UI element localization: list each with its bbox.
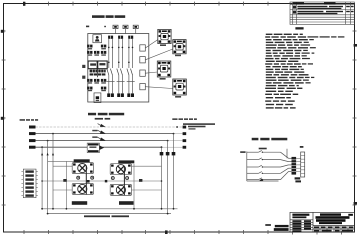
rung 1 label bbox=[259, 148, 267, 150]
wire PB1 stem bbox=[115, 29, 117, 34]
wire left drop 3 bbox=[52, 134, 54, 209]
legend note lines bbox=[265, 34, 344, 109]
fuse row 1 labels bbox=[88, 48, 106, 49]
fuse row 2 bbox=[87, 51, 106, 54]
meter circles T2 bbox=[111, 177, 114, 180]
transformer T1 label bbox=[74, 159, 90, 162]
wire TS2 to device B bbox=[145, 49, 173, 60]
fuse row 4 labels bbox=[88, 90, 106, 91]
wire stub T2 primary bbox=[132, 165, 162, 167]
wire branch to T1 bbox=[48, 160, 74, 162]
phase label right bbox=[172, 118, 177, 120]
revision row 1 text bbox=[293, 6, 354, 10]
circuit breaker CB1 box bbox=[93, 35, 102, 43]
wire TS4 to device D bbox=[145, 87, 173, 89]
wire left drop 2 bbox=[47, 141, 49, 214]
wire PB2 stem bbox=[125, 29, 127, 34]
revision row 2 text bbox=[293, 11, 354, 15]
limit switch LS2 rung bbox=[247, 158, 292, 162]
POWER PANEL LAYOUT title bbox=[92, 15, 125, 18]
panel left outside labels bbox=[82, 65, 85, 68]
riser tap right bbox=[139, 179, 142, 182]
revision table bbox=[290, 2, 354, 24]
frame center mark bottom bbox=[165, 230, 168, 234]
transformer T3 label bbox=[72, 201, 87, 205]
frame center mark top bbox=[23, 2, 25, 6]
device C (remote starter) bbox=[157, 61, 171, 80]
right drop fuse blocks bbox=[160, 152, 176, 155]
wire connector feed bbox=[286, 149, 288, 159]
wire TS3 to device C bbox=[145, 72, 157, 73]
wire right drop 3 bbox=[173, 134, 175, 209]
frame center mark left bbox=[1, 30, 4, 33]
wire left riser bbox=[65, 161, 67, 208]
title block company text bbox=[292, 214, 311, 232]
device A (remote starter) bbox=[158, 29, 171, 46]
LIMIT SWITCH SCHEMATIC title bbox=[252, 138, 288, 141]
transformer T2 label bbox=[118, 160, 134, 163]
left drop fuse marks bbox=[41, 153, 54, 156]
device D (remote starter) bbox=[173, 79, 187, 98]
node bus2 right tap bbox=[173, 133, 175, 135]
bottom tie junction dots bbox=[41, 208, 174, 215]
node bus2 left tap bbox=[52, 133, 54, 135]
frame zone ticks right bbox=[353, 31, 357, 205]
terminal square TS2 bbox=[140, 57, 146, 63]
terminal square TS1 bbox=[140, 45, 146, 51]
wire stub T1 primary bbox=[53, 165, 72, 167]
wire stub T3 primary bbox=[53, 189, 72, 191]
frame center mark right bbox=[354, 44, 357, 47]
phase label left bbox=[20, 119, 25, 121]
fuse row 3 bbox=[87, 79, 106, 82]
limit switch LS5 rung bbox=[247, 172, 292, 180]
legend title bbox=[295, 27, 303, 29]
limit switch LS4 rung bbox=[247, 168, 292, 173]
bus L2 bbox=[29, 132, 186, 135]
frame zone ticks top bbox=[24, 2, 268, 6]
revision table header text bbox=[293, 2, 304, 4]
terminal square TS3 bbox=[140, 70, 146, 76]
terminal square TS4 bbox=[140, 84, 146, 90]
transformer T2 bbox=[110, 164, 131, 175]
limit switch bottom arrow bbox=[259, 179, 263, 181]
wire T2-T4 link bbox=[123, 167, 125, 196]
drawing file stamp bbox=[265, 224, 288, 231]
wire right drop 2 bbox=[167, 141, 169, 214]
fuse row 4 bbox=[87, 87, 106, 90]
left rail label bbox=[240, 151, 245, 153]
meter circles T1 bbox=[77, 176, 80, 179]
contactor M2 bbox=[117, 36, 125, 97]
terminal strip TB1 bbox=[88, 61, 107, 77]
bus L1 bbox=[29, 126, 186, 129]
fuse row 3 labels bbox=[88, 82, 106, 83]
bus wire number labels bbox=[92, 130, 97, 138]
pushbutton PB1 bbox=[113, 25, 118, 28]
plug label bbox=[295, 177, 301, 179]
phase label center bbox=[95, 118, 103, 120]
title block bbox=[290, 212, 354, 232]
limit switch bottom rail bbox=[247, 180, 279, 182]
node A bbox=[105, 180, 108, 183]
wire mid tie bbox=[42, 180, 161, 182]
device B (remote starter) bbox=[173, 40, 186, 57]
transformer T3 bbox=[72, 184, 93, 195]
pushbutton PB2 bbox=[123, 25, 128, 28]
connector J1 top label bbox=[300, 146, 304, 148]
transformer T1 bbox=[72, 163, 93, 174]
frame zone ticks bottom bbox=[24, 230, 342, 235]
wire TS1 to device A bbox=[145, 40, 158, 49]
fuse row 2 labels bbox=[88, 54, 106, 55]
wire bottom tie 2 bbox=[48, 213, 171, 215]
limit switch left rail bbox=[246, 151, 248, 181]
wire right drop 1 bbox=[161, 147, 163, 209]
transformer T4 label bbox=[119, 201, 134, 205]
title block bottom row cells text bbox=[314, 226, 353, 231]
pushbutton PB3 bbox=[133, 25, 138, 28]
transformer T4 bbox=[110, 184, 131, 195]
wire PB3 stem bbox=[135, 29, 137, 34]
small label left of panel top bbox=[86, 26, 89, 28]
node bus4 right tap bbox=[161, 146, 163, 148]
limit switch LS3 rung bbox=[247, 165, 292, 167]
wires J1 to P1 bbox=[296, 158, 301, 171]
terminal strip TB2 bbox=[21, 169, 38, 198]
bus L3 bbox=[29, 139, 186, 142]
bus L4 bbox=[29, 146, 186, 149]
fuse row 1 bbox=[87, 45, 106, 48]
riser tap left bbox=[63, 179, 66, 182]
contactor M3 bbox=[127, 36, 135, 97]
fuse FU box bottom bbox=[94, 93, 101, 103]
node bus4 left tap bbox=[41, 146, 43, 148]
wire left drop 1 bbox=[41, 147, 43, 209]
frame zone ticks left bbox=[2, 31, 6, 205]
plug P1 bbox=[301, 152, 305, 177]
meter M on bus L4 bbox=[87, 143, 104, 153]
title block drawing title text bbox=[316, 213, 353, 224]
limit switch LS1 rung bbox=[247, 150, 292, 158]
schematic footnote bbox=[84, 215, 110, 217]
node bus3 left tap bbox=[47, 140, 49, 142]
connector J1 bbox=[292, 157, 297, 175]
node bus3 right tap bbox=[167, 140, 169, 142]
contactor M1 bbox=[107, 36, 115, 97]
wire T1-T3 link bbox=[85, 166, 87, 195]
wire stub T4 primary bbox=[132, 189, 162, 191]
small label near PB1 bbox=[104, 26, 106, 27]
POWER CIRCUIT SCHEMATIC title bbox=[88, 113, 124, 116]
wire bottom tie 1 bbox=[42, 208, 177, 210]
wire right riser bbox=[133, 164, 135, 209]
panel enclosure bbox=[88, 34, 149, 103]
feeder voltage label bbox=[183, 123, 215, 125]
bus tap arrows bbox=[98, 124, 106, 141]
